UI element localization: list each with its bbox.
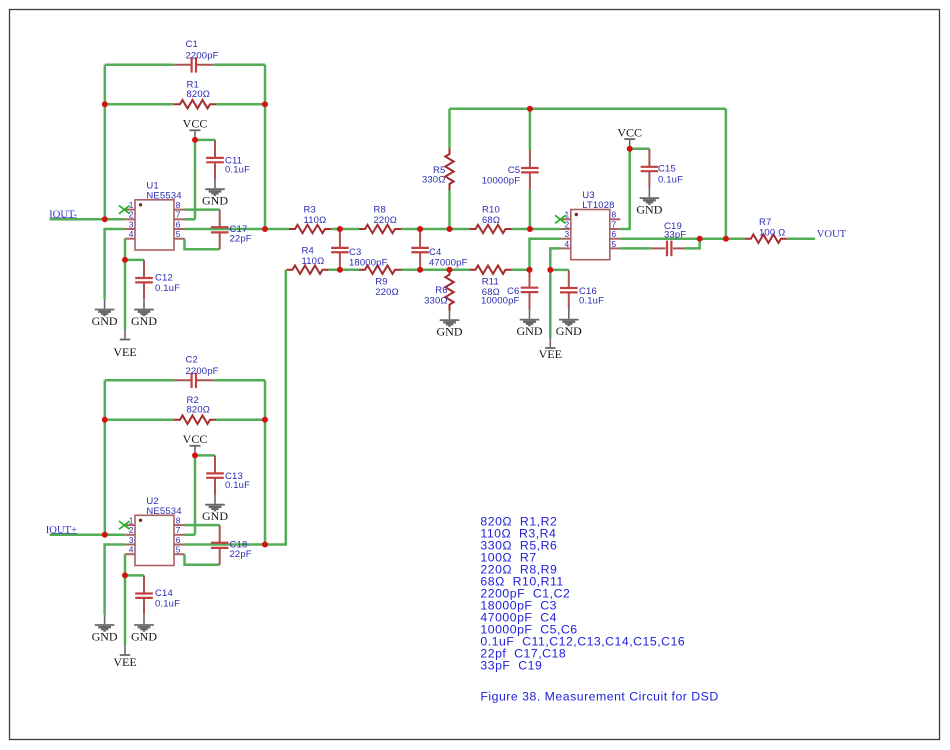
wire (620, 149, 629, 229)
wire (195, 139, 215, 142)
capacitor C13 (214, 455, 216, 473)
svg-text:R11: R11 (482, 277, 499, 288)
node U1 output (262, 226, 268, 232)
node C5 top (527, 106, 533, 112)
svg-text:1: 1 (565, 210, 570, 220)
svg-text:C4: C4 (429, 247, 441, 258)
resistor R4 (287, 266, 329, 274)
wire (450, 107, 726, 110)
wire (401, 268, 470, 271)
svg-text:GND: GND (131, 314, 157, 328)
svg-text:22pF: 22pF (230, 234, 252, 245)
svg-text:3: 3 (129, 535, 134, 545)
svg-text:C12: C12 (155, 272, 173, 283)
junction (122, 572, 128, 578)
svg-text:6: 6 (612, 229, 617, 239)
wire (550, 248, 560, 270)
svg-text:GND: GND (202, 194, 228, 208)
power VCC (194, 131, 196, 140)
resistor R1 (174, 100, 216, 108)
resistor R6 (445, 269, 453, 311)
svg-text:220Ω: 220Ω (374, 215, 398, 226)
svg-text:10000pF: 10000pF (481, 295, 520, 306)
wire (264, 104, 267, 229)
ground (214, 495, 216, 504)
wire (630, 147, 650, 150)
svg-text:8: 8 (176, 200, 181, 210)
wire (331, 228, 359, 231)
svg-text:VCC: VCC (617, 125, 642, 139)
svg-text:C14: C14 (155, 588, 173, 599)
wire (264, 65, 267, 104)
ground (529, 309, 531, 318)
svg-text:Figure 38. Measurement Circuit: Figure 38. Measurement Circuit for DSD (480, 689, 718, 703)
wire (104, 104, 107, 219)
svg-text:2: 2 (565, 219, 570, 229)
node C3 top (337, 226, 343, 232)
resistor R7 (745, 235, 787, 243)
resistor R2 (174, 416, 216, 424)
node R6 top (447, 267, 453, 273)
wire (105, 545, 125, 615)
wire (185, 524, 220, 527)
node C4 bottom (417, 267, 423, 273)
svg-text:110Ω: 110Ω (302, 256, 325, 267)
ground (568, 309, 570, 318)
resistor R5 (445, 148, 453, 190)
svg-text:GND: GND (131, 629, 157, 643)
wire (448, 190, 451, 229)
capacitor C5 (529, 150, 531, 168)
wire (549, 270, 552, 338)
wire (195, 454, 215, 457)
svg-text:10000pF: 10000pF (482, 175, 521, 186)
wire (104, 65, 107, 104)
wire (185, 554, 220, 565)
wire (185, 534, 196, 537)
wire (105, 418, 174, 421)
svg-text:NE5534: NE5534 (146, 191, 181, 202)
svg-text:5: 5 (176, 229, 181, 239)
wire (725, 109, 728, 239)
svg-text:820Ω: 820Ω (187, 89, 211, 100)
no-connect pin 1 (119, 521, 130, 529)
wire (124, 554, 127, 575)
svg-text:2: 2 (129, 525, 134, 535)
ground (648, 188, 650, 197)
svg-text:330Ω: 330Ω (422, 174, 446, 185)
svg-text:0.1uF: 0.1uF (225, 165, 250, 176)
svg-text:VEE: VEE (113, 345, 136, 359)
capacitor C2 (174, 379, 192, 381)
wire (448, 109, 451, 148)
svg-text:4: 4 (129, 229, 134, 239)
svg-text:VCC: VCC (183, 432, 208, 446)
node R5 bottom (447, 226, 453, 232)
wire (329, 268, 360, 271)
svg-text:NE5534: NE5534 (146, 506, 181, 517)
wire (214, 64, 265, 67)
svg-text:47000pF: 47000pF (429, 257, 468, 268)
wire (50, 534, 125, 537)
svg-text:GND: GND (636, 203, 662, 217)
svg-text:8: 8 (176, 516, 181, 526)
no-connect U3 pin 1 (555, 215, 566, 223)
svg-text:820Ω: 820Ω (187, 405, 211, 416)
svg-text:5: 5 (176, 545, 181, 555)
wire (264, 420, 267, 545)
wire (512, 268, 530, 271)
svg-text:1: 1 (129, 200, 134, 210)
svg-text:2200pF: 2200pF (186, 366, 219, 377)
wire (124, 260, 127, 330)
svg-text:2: 2 (129, 210, 134, 220)
power VCC (194, 446, 196, 455)
node C5 bottom (527, 226, 533, 232)
capacitor C1 (174, 64, 192, 66)
wire (512, 228, 561, 231)
svg-text:GND: GND (517, 324, 543, 338)
ground (214, 179, 216, 188)
svg-text:0.1uF: 0.1uF (579, 295, 604, 306)
capacitor C19 (651, 247, 666, 249)
svg-text:VEE: VEE (113, 655, 136, 669)
op-amp U1 NE5534 (135, 200, 174, 250)
svg-text:R4: R4 (302, 245, 314, 256)
svg-text:C15: C15 (658, 164, 676, 175)
capacitor C18 (219, 525, 221, 542)
wire (185, 208, 220, 211)
wire (265, 270, 286, 545)
junction (192, 452, 198, 458)
svg-text:5: 5 (612, 239, 617, 249)
junction (122, 257, 128, 263)
wire (185, 543, 266, 546)
wire (105, 379, 174, 382)
capacitor C4 (419, 229, 421, 248)
ground (143, 615, 145, 624)
svg-text:1: 1 (129, 516, 134, 526)
wire (216, 418, 265, 421)
ground (143, 299, 145, 308)
wire (401, 228, 470, 231)
no-connect pin 1 (119, 206, 130, 214)
node feedback out (723, 236, 729, 242)
svg-text:0.1uF: 0.1uF (155, 283, 180, 294)
ground (104, 299, 106, 308)
svg-text:18000pF: 18000pF (349, 257, 388, 268)
svg-text:GND: GND (556, 324, 582, 338)
wire (105, 64, 174, 67)
svg-text:C2: C2 (186, 354, 198, 365)
op-amp U3 LT1028 (571, 210, 610, 260)
svg-text:68Ω: 68Ω (482, 215, 500, 226)
wire (194, 455, 197, 534)
svg-text:GND: GND (92, 629, 118, 643)
svg-text:22pF: 22pF (230, 549, 252, 560)
svg-text:33pF: 33pF (664, 229, 686, 240)
svg-text:6: 6 (176, 535, 181, 545)
wire (529, 190, 532, 230)
junction (262, 417, 268, 423)
svg-text:0.1uF: 0.1uF (155, 598, 180, 609)
node C3 bottom (337, 267, 343, 273)
junction (102, 532, 108, 538)
svg-text:0.1uF: 0.1uF (225, 480, 250, 491)
node C19 out (697, 236, 703, 242)
wire (124, 239, 127, 260)
junction (192, 137, 198, 143)
wire (104, 420, 107, 535)
capacitor C16 (568, 270, 570, 288)
ground (449, 310, 451, 319)
power VEE (124, 330, 126, 339)
power VCC (629, 139, 631, 148)
wire (685, 239, 700, 249)
wire (214, 379, 265, 382)
resistor R10 (470, 225, 512, 233)
svg-text:2200pF: 2200pF (186, 50, 219, 61)
junction (102, 216, 108, 222)
capacitor C6 (529, 270, 531, 288)
svg-text:4: 4 (129, 545, 134, 555)
wire (620, 237, 745, 240)
wire (550, 269, 569, 272)
svg-text:110Ω: 110Ω (304, 215, 327, 226)
svg-text:33pF C19: 33pF C19 (480, 659, 542, 673)
ground (104, 615, 106, 624)
svg-text:330Ω: 330Ω (424, 295, 448, 306)
capacitor C12 (143, 260, 145, 278)
wire (125, 574, 144, 577)
svg-text:GND: GND (437, 325, 463, 339)
resistor R8 (359, 225, 401, 233)
svg-text:VEE: VEE (539, 347, 562, 361)
wire (105, 103, 174, 106)
wire (787, 237, 815, 240)
svg-text:7: 7 (176, 525, 181, 535)
svg-text:3: 3 (565, 229, 570, 239)
wire (125, 259, 144, 262)
wire (529, 109, 532, 150)
resistor R9 (359, 266, 401, 274)
svg-text:VOUT: VOUT (817, 229, 847, 240)
resistor R3 (289, 225, 331, 233)
junction (102, 417, 108, 423)
node C4 top (417, 226, 423, 232)
svg-text:GND: GND (202, 509, 228, 523)
wire (185, 228, 266, 231)
capacitor C14 (143, 575, 145, 593)
wire (216, 103, 265, 106)
svg-text:100 Ω: 100 Ω (759, 227, 785, 238)
wire (185, 218, 196, 221)
junction (262, 101, 268, 107)
wire (264, 380, 267, 419)
wire (185, 239, 220, 250)
resistor R11 (470, 266, 512, 274)
wire (50, 218, 125, 221)
svg-text:7: 7 (176, 210, 181, 220)
capacitor C3 (339, 229, 341, 248)
svg-text:C1: C1 (186, 39, 198, 50)
svg-text:220Ω: 220Ω (375, 287, 399, 298)
wire (104, 380, 107, 419)
wire (124, 575, 127, 645)
wire (265, 228, 289, 231)
wire (530, 239, 561, 270)
node C6 top (527, 267, 533, 273)
svg-text:R7: R7 (759, 217, 771, 228)
node U2 output (262, 542, 268, 548)
svg-text:VCC: VCC (183, 117, 208, 131)
svg-text:GND: GND (92, 314, 118, 328)
wire (194, 140, 197, 219)
node VEE U3 (547, 267, 553, 273)
svg-text:3: 3 (129, 219, 134, 229)
wire (105, 229, 125, 299)
svg-text:LT1028: LT1028 (582, 200, 614, 211)
wire (620, 247, 651, 250)
svg-text:R9: R9 (375, 277, 387, 288)
capacitor C15 (648, 149, 650, 167)
svg-text:0.1uF: 0.1uF (658, 175, 683, 186)
svg-text:C5: C5 (508, 165, 520, 176)
capacitor C11 (214, 140, 216, 158)
svg-text:7: 7 (612, 219, 617, 229)
svg-text:C3: C3 (349, 247, 361, 258)
power VEE (124, 645, 126, 654)
power VEE (549, 338, 551, 347)
op-amp U2 NE5534 (135, 515, 174, 565)
svg-text:4: 4 (565, 239, 570, 249)
svg-text:6: 6 (176, 219, 181, 229)
junction (627, 146, 633, 152)
junction (102, 101, 108, 107)
capacitor C17 (219, 210, 221, 227)
